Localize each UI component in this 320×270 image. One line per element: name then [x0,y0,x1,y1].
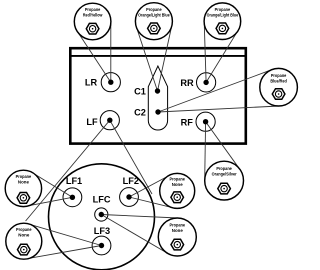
svg-text:Propane: Propane [85,7,101,12]
svg-text:LF2: LF2 [123,176,139,186]
svg-text:Propane: Propane [216,166,232,171]
svg-text:Orange/Silver: Orange/Silver [212,172,237,177]
svg-text:Orange/Light Blue: Orange/Light Blue [207,12,239,17]
svg-text:C1: C1 [134,86,146,96]
svg-text:LFC: LFC [93,195,111,205]
svg-text:Red/Yellow: Red/Yellow [83,13,103,18]
svg-text:LF3: LF3 [94,226,110,236]
svg-text:None: None [172,182,183,187]
svg-text:Propane: Propane [170,223,186,228]
svg-text:Propane: Propane [146,7,162,12]
svg-text:Propane: Propane [271,73,287,78]
svg-text:Orange/Light Blue: Orange/Light Blue [138,12,170,17]
svg-text:None: None [18,232,29,237]
svg-text:LF1: LF1 [66,176,82,186]
svg-text:LR: LR [85,78,98,88]
svg-text:LF: LF [86,117,98,127]
svg-text:Propane: Propane [16,174,32,179]
svg-text:None: None [18,180,29,185]
svg-text:Propane: Propane [169,177,185,182]
svg-text:Propane: Propane [16,227,32,232]
svg-text:C2: C2 [134,108,146,118]
svg-text:None: None [172,228,183,233]
svg-text:Blue/Red: Blue/Red [270,78,287,83]
svg-text:Propane: Propane [215,7,231,12]
svg-text:RR: RR [180,78,194,88]
svg-text:RF: RF [181,117,194,127]
